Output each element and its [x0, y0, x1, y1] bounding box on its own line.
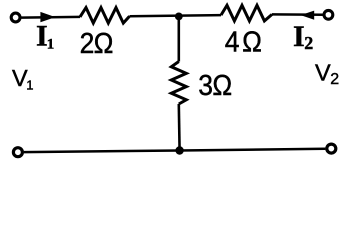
resistor R1 2ohm	[80, 8, 130, 24]
svg-text:I2: I2	[293, 20, 313, 53]
wire top-left segment	[21, 16, 80, 19]
terminal circle bottom-right	[327, 144, 336, 153]
resistor R3 3ohm	[171, 62, 186, 105]
resistor R2 4ohm	[221, 5, 272, 21]
wire top-right segment	[272, 13, 324, 16]
arrow I1	[40, 12, 55, 22]
terminal circle bottom-left	[13, 148, 22, 157]
wire middle vertical upper	[178, 16, 181, 61]
svg-text:I1: I1	[36, 20, 54, 53]
svg-text:3Ω: 3Ω	[198, 69, 231, 101]
terminal circle top-right	[324, 10, 333, 19]
node top junction	[175, 13, 183, 21]
wire bottom rail	[24, 149, 326, 152]
svg-text:V2: V2	[315, 60, 339, 89]
svg-text:4Ω: 4Ω	[225, 26, 262, 58]
svg-text:V1: V1	[12, 65, 33, 93]
terminal circle top-left	[11, 13, 20, 22]
wire middle vertical lower	[178, 104, 181, 151]
wire top-middle segment	[130, 15, 222, 16]
node bottom junction	[175, 146, 183, 154]
svg-text:2Ω: 2Ω	[80, 27, 113, 59]
arrow I2	[301, 11, 315, 20]
